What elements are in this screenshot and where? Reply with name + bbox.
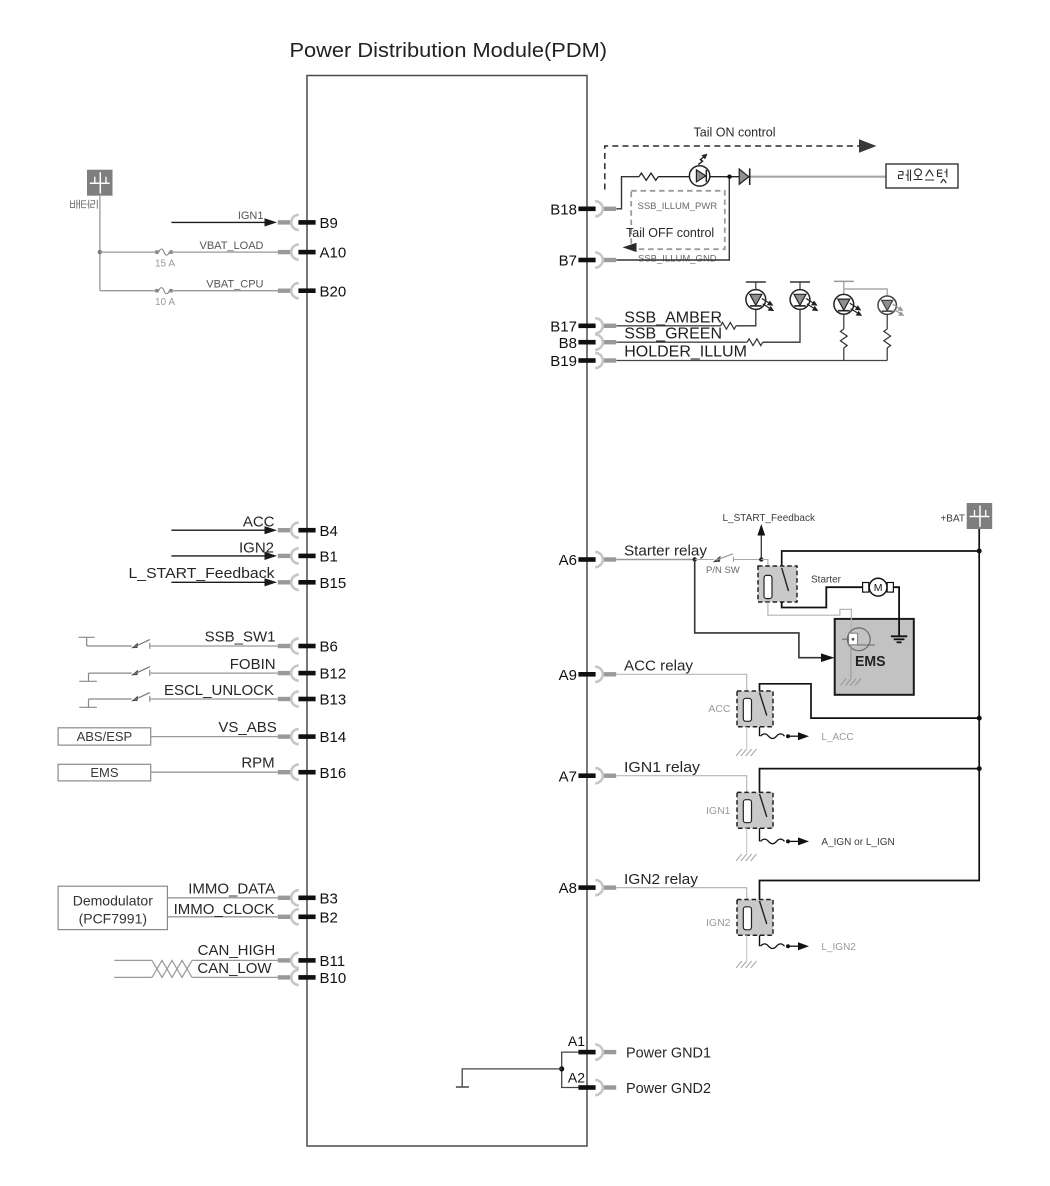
svg-text:IGN2 relay: IGN2 relay bbox=[624, 871, 699, 888]
wire B7 up to junction bbox=[616, 179, 729, 260]
resistor R5 (holder2) bbox=[884, 314, 891, 361]
LED D1 illum bbox=[689, 154, 709, 186]
svg-text:B20: B20 bbox=[320, 283, 347, 300]
node rail-IGN1 bbox=[977, 766, 982, 771]
svg-text:M: M bbox=[874, 582, 883, 594]
wire A_IGN out bbox=[760, 828, 895, 848]
pin B2 bbox=[278, 909, 338, 926]
wire IMMO_DATA bbox=[167, 880, 277, 897]
svg-text:SSB_ILLUM_PWR: SSB_ILLUM_PWR bbox=[638, 201, 718, 212]
svg-text:RPM: RPM bbox=[241, 754, 274, 771]
PDM module box U1 bbox=[307, 76, 587, 1147]
svg-text:B18: B18 bbox=[550, 201, 577, 218]
svg-text:IMMO_CLOCK: IMMO_CLOCK bbox=[174, 901, 275, 918]
resistor R4 (holder1) bbox=[840, 315, 847, 361]
wire HOLDER_ILLUM bbox=[616, 344, 887, 361]
svg-text:IGN1: IGN1 bbox=[238, 210, 264, 222]
svg-text:A8: A8 bbox=[559, 880, 577, 897]
svg-text:L_START_Feedback: L_START_Feedback bbox=[723, 513, 816, 524]
switch SW2 FOB bbox=[79, 667, 150, 682]
wire A1-A2 link bbox=[562, 1052, 579, 1087]
wire CAN_HIGH bbox=[114, 942, 277, 960]
pin B20 bbox=[278, 283, 346, 300]
pin B7 bbox=[559, 252, 617, 269]
svg-text:Demodulator: Demodulator bbox=[73, 893, 153, 909]
svg-text:B6: B6 bbox=[320, 639, 338, 656]
svg-text:HOLDER_ILLUM: HOLDER_ILLUM bbox=[624, 344, 747, 361]
wire A6 to EMS arrow bbox=[695, 560, 835, 663]
wire A7 IGN1 relay bbox=[616, 759, 746, 792]
resistor R2 (amber) bbox=[721, 322, 737, 329]
svg-text:Power GND1: Power GND1 bbox=[626, 1045, 711, 1062]
wire IGN2 bbox=[171, 540, 277, 561]
wire RPM bbox=[151, 754, 278, 772]
svg-text:ABS/ESP: ABS/ESP bbox=[77, 729, 133, 744]
svg-text:FOBIN: FOBIN bbox=[230, 656, 276, 673]
svg-text:B3: B3 bbox=[320, 890, 338, 907]
wire L_IGN2 out bbox=[760, 935, 857, 953]
LED D4 green bbox=[790, 290, 817, 311]
wire L_ACC out bbox=[760, 727, 854, 743]
wire SSB_AMBER bbox=[616, 309, 722, 326]
svg-text:SSB_GREEN: SSB_GREEN bbox=[624, 326, 722, 343]
svg-text:EMS: EMS bbox=[90, 765, 119, 780]
wire to starter coil bbox=[761, 560, 768, 567]
svg-text:VBAT_CPU: VBAT_CPU bbox=[206, 279, 263, 291]
wire IGN1 contact supply bbox=[760, 769, 980, 793]
pin B13 bbox=[278, 691, 346, 708]
pin B11 bbox=[278, 953, 345, 970]
pin A7 bbox=[559, 768, 617, 785]
svg-text:A2: A2 bbox=[568, 1069, 585, 1085]
svg-text:IGN2: IGN2 bbox=[239, 540, 274, 557]
svg-text:10 A: 10 A bbox=[155, 297, 175, 308]
svg-text:SSB_SW1: SSB_SW1 bbox=[205, 628, 276, 645]
ground EMS (hatched) bbox=[841, 679, 862, 686]
svg-text:B10: B10 bbox=[320, 970, 347, 987]
transistor Q1 (EMS mosfet) bbox=[842, 628, 875, 651]
wire +BAT rail bbox=[760, 529, 980, 900]
node battery-VBAT_LOAD junction bbox=[98, 250, 102, 254]
svg-text:VS_ABS: VS_ABS bbox=[218, 719, 276, 736]
wire B18 to lamp bbox=[616, 177, 639, 209]
diode D2 bbox=[739, 168, 750, 185]
resistor R1 (illum) bbox=[639, 173, 658, 180]
svg-text:B17: B17 bbox=[550, 318, 577, 335]
block ABS/ESP bbox=[58, 728, 151, 745]
wire ACC contact supply bbox=[760, 684, 980, 718]
wire holder branch to D6 bbox=[844, 289, 887, 296]
pin B16 bbox=[278, 765, 346, 782]
wire SSB_SW1 bbox=[150, 628, 278, 646]
pin B9 bbox=[278, 215, 338, 232]
wire A8 IGN2 relay bbox=[616, 871, 746, 899]
svg-text:L_START_Feedback: L_START_Feedback bbox=[129, 565, 276, 582]
ground IGN2 (hatched) bbox=[736, 961, 757, 968]
battery BAT1 bbox=[87, 170, 113, 196]
block EMS (left) bbox=[58, 764, 151, 781]
svg-text:ESCL_UNLOCK: ESCL_UNLOCK bbox=[164, 682, 274, 699]
relay K3 IGN1 bbox=[737, 792, 773, 828]
svg-text:A9: A9 bbox=[559, 667, 577, 684]
node rail-starter bbox=[977, 549, 982, 554]
resistor R3 (green) bbox=[747, 339, 763, 346]
pin B14 bbox=[278, 729, 346, 746]
wire ACC bbox=[171, 514, 277, 535]
pin B10 bbox=[278, 970, 346, 987]
wire starter contact supply bbox=[782, 551, 980, 568]
svg-text:Tail ON control: Tail ON control bbox=[694, 126, 776, 140]
wire IGN2 coil gnd bbox=[746, 935, 748, 960]
relay K2 ACC bbox=[737, 691, 773, 727]
switch P/N SW bbox=[695, 554, 762, 576]
pin A1 bbox=[568, 1033, 616, 1060]
wire internal ground bbox=[462, 1069, 562, 1086]
svg-text:B2: B2 bbox=[320, 909, 338, 926]
svg-text:15 A: 15 A bbox=[155, 259, 175, 270]
wire L_START_Feedback out bbox=[723, 513, 816, 560]
wire L_START_Feedback in bbox=[129, 565, 278, 586]
pin B3 bbox=[278, 890, 338, 907]
svg-text:IGN1: IGN1 bbox=[706, 805, 731, 817]
svg-text:B19: B19 bbox=[550, 353, 577, 370]
LED D5 holder bbox=[834, 294, 861, 315]
svg-text:Starter: Starter bbox=[811, 575, 842, 586]
battery label (Korean 배터리) bbox=[71, 200, 98, 209]
svg-text:VBAT_LOAD: VBAT_LOAD bbox=[200, 240, 264, 252]
fuse F1 15A bbox=[155, 249, 175, 269]
wire A6 starter relay bbox=[616, 543, 707, 560]
wire CAN_LOW bbox=[114, 960, 277, 977]
svg-text:A_IGN or L_IGN: A_IGN or L_IGN bbox=[821, 837, 894, 848]
svg-text:B1: B1 bbox=[320, 549, 338, 566]
block EMS (right) bbox=[835, 619, 914, 695]
svg-text:IGN1 relay: IGN1 relay bbox=[624, 759, 701, 776]
wire R1 to LED D1 bbox=[658, 176, 690, 178]
pin A8 bbox=[559, 880, 617, 897]
wire VBAT_CPU bbox=[100, 279, 278, 291]
pin B17 bbox=[550, 318, 616, 335]
wire A9 ACC relay bbox=[616, 658, 746, 691]
pin B19 bbox=[550, 353, 616, 370]
pin B1 bbox=[278, 548, 338, 565]
svg-text:B13: B13 bbox=[320, 692, 347, 709]
battery +BAT bbox=[940, 503, 992, 529]
pin B15 bbox=[278, 575, 346, 592]
pin B4 bbox=[278, 523, 338, 540]
ground motor (earth) bbox=[891, 636, 907, 642]
wire R3 to LED D4 bbox=[763, 310, 800, 343]
svg-text:B16: B16 bbox=[320, 765, 347, 782]
pin A6 bbox=[559, 552, 617, 569]
wire starter contact to motor bbox=[782, 587, 864, 607]
wire EMS mosfet source bbox=[850, 645, 852, 678]
wire IGN1 bbox=[171, 210, 277, 227]
block Demodulator PCF7991 bbox=[58, 886, 167, 929]
dashed box SSB_ILLUM bbox=[631, 191, 725, 249]
relay K4 IGN2 bbox=[737, 900, 773, 936]
svg-text:Starter relay: Starter relay bbox=[624, 543, 707, 560]
svg-text:CAN_LOW: CAN_LOW bbox=[197, 960, 272, 977]
svg-text:EMS: EMS bbox=[855, 653, 886, 670]
wire starter coil to EMS bbox=[768, 602, 852, 633]
svg-text:B4: B4 bbox=[320, 523, 338, 540]
pin B12 bbox=[278, 666, 346, 683]
node B7 junction bbox=[727, 175, 731, 179]
wire motor to ground bbox=[893, 587, 899, 636]
wire SSB_GREEN bbox=[616, 326, 747, 343]
svg-text:A10: A10 bbox=[320, 245, 347, 262]
node rail-ACC bbox=[977, 716, 982, 721]
wire IGN1 coil gnd bbox=[746, 828, 748, 853]
svg-text:B9: B9 bbox=[320, 215, 338, 232]
LED D6 holder bbox=[878, 296, 903, 315]
svg-text:ACC: ACC bbox=[708, 703, 731, 715]
svg-text:IMMO_DATA: IMMO_DATA bbox=[188, 880, 275, 897]
wire R2 to LED D3 bbox=[736, 310, 756, 326]
svg-text:A1: A1 bbox=[568, 1033, 585, 1049]
svg-text:A7: A7 bbox=[559, 768, 577, 785]
arrow Tail OFF (left) bbox=[623, 243, 637, 252]
svg-text:ACC: ACC bbox=[243, 514, 275, 531]
svg-text:B12: B12 bbox=[320, 666, 347, 683]
wire diode to rheostat bbox=[751, 176, 887, 178]
fuse F2 10A bbox=[155, 288, 175, 308]
wire VS_ABS bbox=[151, 719, 278, 737]
svg-text:B7: B7 bbox=[559, 253, 577, 270]
svg-text:B8: B8 bbox=[559, 335, 577, 352]
wire ESCL_UNLOCK bbox=[150, 682, 278, 699]
LED D3 amber bbox=[746, 290, 773, 311]
svg-text:Power Distribution Module(PDM): Power Distribution Module(PDM) bbox=[290, 40, 608, 62]
block rheostat (Korean 레오스텟) bbox=[886, 164, 958, 188]
pin A10 bbox=[278, 245, 346, 262]
svg-text:P/N SW: P/N SW bbox=[706, 565, 740, 576]
relay K1 starter bbox=[758, 566, 797, 602]
svg-text:B11: B11 bbox=[320, 953, 346, 970]
switch SW3 ESCL bbox=[79, 693, 150, 708]
svg-text:L_ACC: L_ACC bbox=[821, 732, 853, 743]
svg-text:B14: B14 bbox=[320, 729, 347, 746]
svg-text:L_IGN2: L_IGN2 bbox=[821, 942, 856, 953]
svg-text:(PCF7991): (PCF7991) bbox=[79, 911, 147, 927]
node A6 junction bbox=[693, 557, 697, 561]
svg-text:Tail OFF control: Tail OFF control bbox=[626, 226, 714, 240]
pin A9 bbox=[559, 667, 617, 684]
wire Tail ON control (dashed) bbox=[605, 126, 877, 190]
svg-text:CAN_HIGH: CAN_HIGH bbox=[198, 942, 276, 959]
wire IMMO_CLOCK bbox=[167, 901, 277, 918]
ground ACC (hatched) bbox=[736, 749, 757, 756]
ground internal tick bbox=[456, 1086, 469, 1088]
svg-text:+BAT: +BAT bbox=[940, 514, 965, 525]
switch SW1 SSB bbox=[79, 637, 150, 649]
svg-text:Power GND2: Power GND2 bbox=[626, 1080, 711, 1097]
pin B6 bbox=[278, 638, 338, 655]
svg-text:SSB_AMBER: SSB_AMBER bbox=[624, 309, 722, 326]
ground IGN1 (hatched) bbox=[736, 854, 757, 861]
svg-text:A6: A6 bbox=[559, 552, 577, 569]
svg-text:B15: B15 bbox=[320, 575, 347, 592]
power bar D5 (gray) bbox=[834, 281, 854, 294]
pin B18 bbox=[550, 201, 616, 218]
pin A2 bbox=[568, 1069, 616, 1095]
node A1A2 junction bbox=[559, 1066, 564, 1071]
pin B8 bbox=[559, 335, 617, 352]
twisted pair CAN bbox=[152, 960, 192, 977]
motor M1 bbox=[863, 578, 894, 596]
power bar D3 bbox=[746, 282, 766, 290]
svg-text:SSB_ILLUM_GND: SSB_ILLUM_GND bbox=[638, 254, 717, 265]
svg-text:IGN2: IGN2 bbox=[706, 917, 731, 929]
svg-text:ACC relay: ACC relay bbox=[624, 658, 693, 675]
node P/N junction bbox=[759, 557, 763, 561]
wire D1 to diode bbox=[710, 176, 739, 178]
wire FOBIN bbox=[150, 656, 278, 673]
wire battery down bbox=[99, 196, 101, 291]
wire VBAT_LOAD bbox=[100, 240, 278, 252]
wire ACC coil gnd bbox=[746, 727, 748, 749]
power bar D4 bbox=[790, 282, 810, 290]
